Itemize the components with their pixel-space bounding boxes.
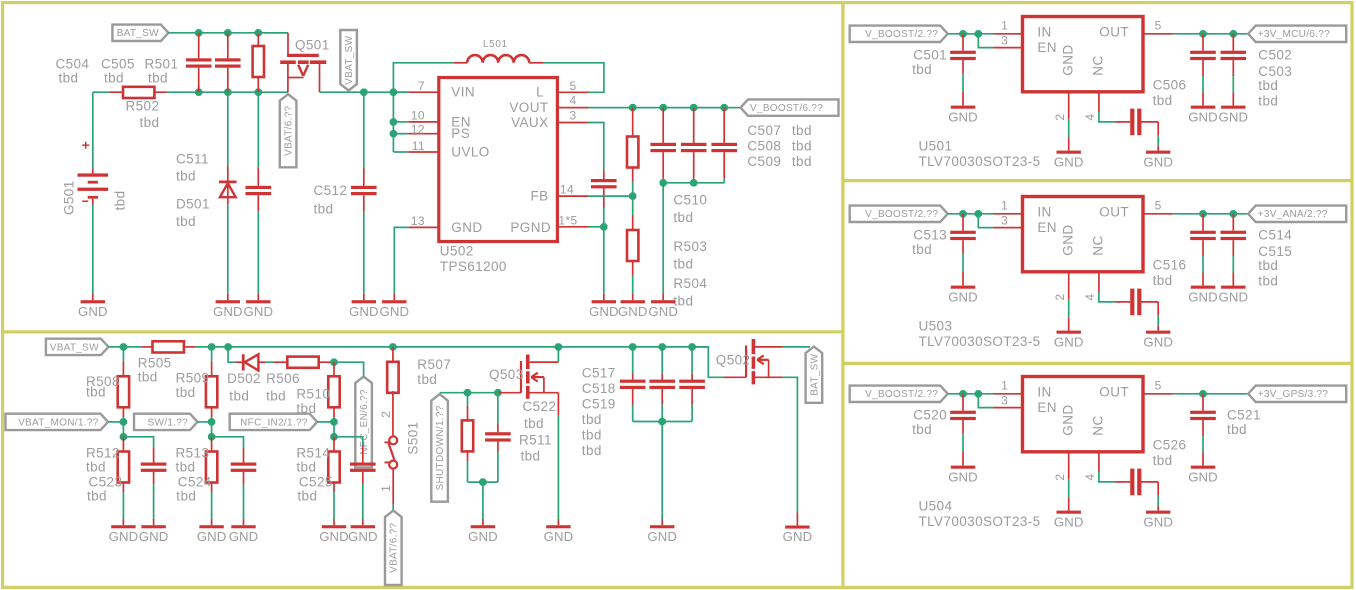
op-amp U501 box bbox=[1023, 17, 1144, 92]
svg-text:V_BOOST/2.??: V_BOOST/2.?? bbox=[865, 29, 938, 40]
svg-text:C514: C514 bbox=[1258, 228, 1292, 243]
wire SHUTDOWN bbox=[440, 392, 499, 394]
net label V_BOOST/2.?? bbox=[850, 386, 948, 402]
junction dot FB bbox=[629, 192, 636, 199]
net label +3V_MCU/6.?? bbox=[1248, 26, 1346, 42]
svg-text:GND: GND bbox=[1143, 154, 1173, 169]
wire VBAT rail bbox=[93, 91, 288, 93]
ground GND C526 bbox=[1143, 511, 1173, 530]
svg-text:tbd: tbd bbox=[176, 489, 196, 504]
pin name VIN bbox=[451, 85, 475, 100]
svg-text:VBAT/6.??: VBAT/6.?? bbox=[284, 105, 295, 155]
pin name EN bbox=[451, 114, 471, 129]
junction dots top rail bbox=[195, 29, 262, 36]
label R508 bbox=[86, 374, 120, 400]
label tbd C518 bbox=[582, 428, 602, 443]
svg-text:tbd: tbd bbox=[1258, 78, 1278, 93]
svg-text:GND: GND bbox=[948, 289, 978, 304]
label Q502 bbox=[716, 353, 751, 368]
wire LDO input bbox=[948, 33, 1023, 35]
svg-text:tbd: tbd bbox=[314, 202, 334, 217]
pin name VOUT bbox=[509, 100, 548, 115]
net label BAT_SW bbox=[112, 25, 168, 41]
ground GND C516 bbox=[1143, 331, 1173, 350]
svg-text:BAT_SW: BAT_SW bbox=[117, 28, 159, 39]
label R509 bbox=[176, 371, 210, 401]
net label VBAT_MON/1.?? bbox=[6, 414, 109, 430]
wire BAT_SW rail bbox=[168, 32, 288, 34]
pin name NC bbox=[1091, 415, 1106, 435]
svg-text:tbd: tbd bbox=[176, 385, 196, 400]
svg-text:U501: U501 bbox=[919, 139, 953, 154]
svg-text:C509: C509 bbox=[747, 154, 781, 169]
label C518 bbox=[582, 381, 616, 396]
svg-text:tbd: tbd bbox=[673, 257, 693, 272]
svg-text:Q503: Q503 bbox=[489, 367, 524, 382]
ground GND C514 bbox=[1188, 286, 1218, 305]
svg-text:GND: GND bbox=[647, 529, 677, 544]
svg-text:R502: R502 bbox=[126, 99, 160, 114]
pin name NC bbox=[1091, 55, 1106, 75]
wire pin2 GND bbox=[1068, 452, 1070, 511]
resistor R507 bbox=[387, 347, 398, 436]
battery G501 bbox=[78, 92, 109, 204]
svg-text:14: 14 bbox=[560, 183, 574, 197]
svg-text:GND: GND bbox=[1054, 154, 1084, 169]
svg-text:5: 5 bbox=[569, 79, 576, 93]
transistor Q501 bbox=[280, 33, 326, 92]
svg-text:GND: GND bbox=[948, 109, 978, 124]
label C520 bbox=[912, 408, 947, 438]
ground GND Q502 bbox=[783, 526, 813, 545]
svg-text:IN: IN bbox=[1037, 25, 1051, 40]
svg-text:BAT_SW: BAT_SW bbox=[809, 353, 820, 395]
svg-text:5: 5 bbox=[1155, 379, 1162, 393]
svg-text:tbd: tbd bbox=[176, 169, 196, 184]
wire join to gnd bbox=[662, 183, 664, 300]
pin number 2 bbox=[1053, 474, 1067, 481]
junction dot output bbox=[1199, 390, 1206, 397]
svg-text:C517: C517 bbox=[582, 366, 616, 381]
ground GND pin2 bbox=[1054, 151, 1084, 170]
wire pin FB bbox=[557, 195, 632, 197]
svg-text:13: 13 bbox=[411, 214, 425, 228]
wire EN link bbox=[978, 34, 1022, 48]
svg-text:C501: C501 bbox=[913, 48, 947, 63]
label C513 bbox=[912, 228, 947, 258]
label tbd C519 bbox=[582, 443, 602, 458]
inductor L501 bbox=[467, 55, 529, 63]
pin number 1 bbox=[1001, 199, 1008, 213]
net label +3V_ANA/2.?? bbox=[1248, 206, 1346, 222]
wire Q502 source to gnd bbox=[783, 377, 798, 525]
svg-text:C510: C510 bbox=[673, 193, 707, 208]
svg-text:GND: GND bbox=[348, 529, 378, 544]
svg-text:tbd: tbd bbox=[1153, 93, 1173, 108]
wire EN link bbox=[978, 214, 1022, 228]
label R501 bbox=[145, 57, 179, 86]
svg-text:C513: C513 bbox=[913, 228, 947, 243]
svg-text:NC: NC bbox=[1091, 415, 1106, 435]
svg-text:NFC_EN/6.??: NFC_EN/6.?? bbox=[359, 389, 370, 455]
pin number 5 bbox=[1155, 379, 1162, 393]
label tbd C502 bbox=[1258, 78, 1278, 93]
svg-text:GND: GND bbox=[1188, 289, 1218, 304]
svg-text:R512: R512 bbox=[86, 446, 120, 461]
wire cap join 2 bbox=[633, 421, 692, 423]
pin name GND bbox=[1061, 404, 1076, 435]
svg-text:3: 3 bbox=[1001, 393, 1008, 407]
capacitor C503 bbox=[1221, 34, 1247, 106]
ground GND C515 bbox=[1218, 286, 1248, 305]
wire EN link bbox=[978, 394, 1022, 408]
resistor R508 bbox=[118, 347, 129, 422]
svg-text:tbd: tbd bbox=[582, 412, 602, 427]
wire UVLO stub bbox=[393, 151, 438, 153]
svg-text:5: 5 bbox=[1155, 199, 1162, 213]
label C509 bbox=[747, 154, 811, 169]
net label NFC_IN2/1.?? bbox=[230, 414, 318, 430]
capacitor C515 bbox=[1221, 214, 1247, 286]
svg-text:tbd: tbd bbox=[229, 389, 249, 404]
junction dots input bbox=[959, 30, 982, 37]
svg-text:3: 3 bbox=[1001, 33, 1008, 47]
svg-text:R505: R505 bbox=[138, 356, 172, 371]
pin number 7 bbox=[418, 79, 425, 93]
svg-text:C502: C502 bbox=[1258, 48, 1292, 63]
junction dot RC join bbox=[479, 478, 486, 485]
svg-text:EN: EN bbox=[1037, 400, 1057, 415]
label C502 bbox=[1258, 48, 1292, 63]
label C512 bbox=[314, 183, 348, 217]
pin name IN bbox=[1037, 205, 1051, 220]
capacitor C521 bbox=[1190, 394, 1216, 466]
pin number 1 S501 bbox=[379, 485, 393, 492]
junction dots cap join bbox=[660, 179, 698, 186]
svg-text:C507: C507 bbox=[747, 123, 781, 138]
svg-text:GND: GND bbox=[229, 529, 259, 544]
capacitor C502 bbox=[1190, 34, 1216, 106]
svg-text:tbd: tbd bbox=[297, 489, 317, 504]
svg-text:1: 1 bbox=[379, 485, 393, 492]
ground GND C503 bbox=[1218, 106, 1248, 125]
wire L501 loop right bbox=[529, 63, 604, 93]
label C508 bbox=[747, 139, 811, 154]
capacitor C504 bbox=[186, 33, 212, 92]
svg-text:1: 1 bbox=[1001, 199, 1008, 213]
pin number 1*5 bbox=[558, 213, 577, 227]
svg-text:GND: GND bbox=[948, 469, 978, 484]
net label VBAT_SW 2 bbox=[46, 339, 109, 355]
svg-text:tbd: tbd bbox=[266, 389, 286, 404]
label U504 bbox=[919, 499, 1041, 529]
ground GND battery bbox=[78, 300, 108, 319]
resistor R506 bbox=[274, 357, 334, 368]
net label SHUTDOWN/1.?? bbox=[431, 394, 448, 502]
capacitor C518 bbox=[649, 347, 675, 422]
svg-text:GND: GND bbox=[139, 529, 169, 544]
switch S501 bbox=[385, 436, 398, 504]
svg-text:tbd: tbd bbox=[176, 214, 196, 229]
svg-text:GND: GND bbox=[1188, 109, 1218, 124]
ground GND pin13 bbox=[379, 300, 409, 319]
wire Q503 drain bbox=[557, 347, 559, 362]
svg-text:GND: GND bbox=[379, 304, 409, 319]
wire LDO input bbox=[948, 393, 1023, 395]
svg-text:G501: G501 bbox=[62, 180, 77, 215]
junction dots EN PS bbox=[390, 118, 397, 137]
svg-text:VBAT_SW: VBAT_SW bbox=[50, 342, 99, 353]
svg-text:C504: C504 bbox=[56, 57, 90, 72]
junction dots VBAT rail bbox=[195, 89, 262, 96]
svg-text:C511: C511 bbox=[176, 152, 209, 167]
svg-text:4: 4 bbox=[1083, 474, 1097, 481]
pin name EN bbox=[1037, 220, 1057, 235]
wire RC to gnd bbox=[482, 482, 484, 525]
pin number 14 bbox=[560, 183, 574, 197]
pin number 2 bbox=[1053, 114, 1067, 121]
ground GND R513 bbox=[197, 525, 227, 544]
capacitor C516 bbox=[1130, 289, 1141, 316]
pin number 3 bbox=[569, 109, 576, 123]
svg-text:R501: R501 bbox=[145, 57, 179, 72]
pin number 1 bbox=[1001, 19, 1008, 33]
svg-text:GND: GND bbox=[1061, 404, 1076, 435]
svg-text:tbd: tbd bbox=[1258, 258, 1278, 273]
svg-text:U503: U503 bbox=[919, 319, 953, 334]
label R503 bbox=[673, 239, 707, 272]
junction dots input bbox=[959, 390, 982, 397]
transistor Q503 bbox=[499, 355, 559, 399]
label Q503 bbox=[489, 367, 524, 382]
wire PGND to gnd bbox=[603, 227, 605, 300]
junction dot R512 tap bbox=[120, 433, 127, 440]
wire C-NC to gnd bbox=[1141, 122, 1158, 151]
svg-text:L501: L501 bbox=[483, 39, 508, 50]
junction dot NFC_IN2 bbox=[330, 418, 337, 425]
wire pin4 VOUT bbox=[557, 107, 740, 109]
pin name GND bbox=[451, 220, 482, 235]
wire S501 to VBAT flag bbox=[392, 505, 394, 511]
wire pin5 stub bbox=[557, 91, 588, 93]
capacitor C524 bbox=[212, 437, 257, 525]
pin number 10 bbox=[411, 109, 425, 123]
svg-text:TLV70030SOT23-5: TLV70030SOT23-5 bbox=[919, 334, 1041, 349]
label R507 bbox=[417, 357, 451, 387]
svg-text:C506: C506 bbox=[1153, 78, 1187, 93]
ground GND R504 bbox=[618, 300, 648, 319]
svg-text:C520: C520 bbox=[913, 408, 947, 423]
svg-text:tbd: tbd bbox=[912, 62, 932, 77]
resistor R502 bbox=[109, 87, 166, 98]
svg-text:R506: R506 bbox=[266, 371, 300, 386]
capacitor C512 bbox=[351, 92, 377, 300]
wire VIN vertical bbox=[392, 92, 394, 152]
wire pin13 GND bbox=[394, 227, 438, 300]
wire D502 to R506 bbox=[265, 361, 274, 363]
wire pin PGND bbox=[557, 226, 603, 228]
junction dot VBAT_MON bbox=[120, 418, 127, 425]
label R502 bbox=[126, 99, 160, 131]
wire pin3 VAUX bbox=[557, 123, 603, 180]
wire join to gnd 2 bbox=[661, 422, 663, 526]
svg-text:GND: GND bbox=[109, 529, 139, 544]
svg-text:4: 4 bbox=[1083, 114, 1097, 121]
capacitor C501 bbox=[950, 34, 976, 106]
svg-text:GND: GND bbox=[1054, 514, 1084, 529]
ground GND R512 bbox=[109, 525, 139, 544]
capacitor C523 bbox=[123, 437, 166, 525]
svg-text:Q501: Q501 bbox=[295, 38, 330, 53]
wire pin4 NC bbox=[1099, 452, 1130, 482]
label C521 bbox=[1227, 408, 1261, 438]
pin name GND bbox=[1061, 44, 1076, 75]
ground GND caps bbox=[648, 300, 678, 319]
junction dots SHUTDOWN bbox=[464, 389, 502, 396]
label G501 bbox=[62, 180, 128, 215]
svg-text:GND: GND bbox=[1061, 224, 1076, 255]
svg-text:GND: GND bbox=[648, 304, 678, 319]
label R512 bbox=[86, 446, 120, 475]
junction dot SW bbox=[208, 418, 215, 425]
wire C525 link bbox=[334, 437, 363, 446]
svg-text:1: 1 bbox=[1001, 19, 1008, 33]
op-amp U502 box bbox=[439, 78, 558, 242]
label S501 bbox=[406, 421, 421, 454]
svg-text:C521: C521 bbox=[1227, 408, 1261, 423]
wire VBAT_MON bbox=[108, 421, 123, 423]
wire LDO output bbox=[1143, 213, 1248, 215]
wire NFC_EN bbox=[334, 362, 364, 376]
svg-text:5: 5 bbox=[1155, 19, 1162, 33]
resistor R513 bbox=[206, 437, 217, 525]
wire SW bbox=[198, 421, 212, 423]
svg-text:tbd: tbd bbox=[792, 154, 812, 169]
wire RC join bbox=[468, 481, 498, 483]
svg-text:EN: EN bbox=[1037, 220, 1057, 235]
svg-text:C524: C524 bbox=[178, 475, 212, 490]
label tbd C517 bbox=[582, 412, 602, 427]
svg-text:tbd: tbd bbox=[792, 123, 812, 138]
wire pin2 GND bbox=[1068, 272, 1070, 331]
wire C-NC to gnd bbox=[1141, 302, 1158, 331]
capacitor C506 bbox=[1130, 109, 1141, 136]
ground GND PGND bbox=[589, 300, 619, 319]
svg-text:NC: NC bbox=[1091, 55, 1106, 75]
pin name NC bbox=[1091, 235, 1106, 255]
wire L501 loop left bbox=[393, 63, 467, 92]
svg-text:VBAT_MON/1.??: VBAT_MON/1.?? bbox=[18, 417, 99, 428]
net label VBAT/6.?? 2 bbox=[385, 511, 402, 586]
svg-text:tbd: tbd bbox=[912, 422, 932, 437]
pin name IN bbox=[1037, 385, 1051, 400]
net label V_BOOST/6.?? bbox=[741, 99, 839, 115]
svg-text:tbd: tbd bbox=[524, 416, 544, 431]
transistor Q502 bbox=[723, 339, 782, 384]
junction dots output bbox=[1199, 210, 1237, 217]
pin number 1 bbox=[1001, 379, 1008, 393]
pin name GND bbox=[1061, 224, 1076, 255]
label C522 bbox=[523, 399, 557, 431]
ground GND R514 bbox=[319, 525, 349, 544]
junction dot NFC_EN bbox=[330, 359, 337, 366]
wire D502 branch bbox=[228, 347, 235, 362]
pin number 5 bbox=[1155, 19, 1162, 33]
svg-text:C526: C526 bbox=[1153, 438, 1187, 453]
label R513 bbox=[176, 446, 210, 475]
capacitor C525 bbox=[350, 446, 376, 525]
resistor R505 bbox=[153, 341, 184, 352]
svg-text:tbd: tbd bbox=[86, 460, 106, 475]
wire LDO output bbox=[1143, 33, 1248, 35]
wire rail mid bbox=[184, 346, 708, 348]
pin number 11 bbox=[412, 139, 425, 153]
label C524 bbox=[176, 475, 211, 504]
ground GND C525 bbox=[348, 525, 378, 544]
label C505 bbox=[101, 57, 135, 86]
svg-text:VIN: VIN bbox=[451, 85, 475, 100]
net label V_BOOST/2.?? bbox=[850, 26, 948, 42]
svg-text:GND: GND bbox=[1061, 44, 1076, 75]
svg-text:C515: C515 bbox=[1258, 244, 1292, 259]
label R511 bbox=[519, 433, 552, 464]
frame divider left horizontal bbox=[1, 330, 843, 333]
svg-text:tbd: tbd bbox=[148, 71, 168, 86]
ground GND C521 bbox=[1188, 466, 1218, 485]
svg-text:tbd: tbd bbox=[104, 71, 124, 86]
capacitor C511 bbox=[246, 92, 272, 300]
capacitor C505 bbox=[215, 33, 241, 92]
svg-text:C512: C512 bbox=[314, 183, 348, 198]
svg-text:R513: R513 bbox=[176, 446, 210, 461]
pin name OUT bbox=[1099, 25, 1129, 40]
svg-text:tbd: tbd bbox=[1258, 93, 1278, 108]
svg-text:C505: C505 bbox=[101, 57, 135, 72]
svg-text:tbd: tbd bbox=[140, 115, 160, 130]
capacitor C513 bbox=[950, 214, 976, 286]
op-amp U503 box bbox=[1023, 197, 1144, 272]
junction dots output bbox=[1199, 30, 1237, 37]
svg-text:UVLO: UVLO bbox=[451, 144, 489, 159]
svg-text:R503: R503 bbox=[673, 239, 707, 254]
svg-text:tbd: tbd bbox=[912, 242, 932, 257]
svg-text:2: 2 bbox=[1053, 474, 1067, 481]
capacitor C514 bbox=[1190, 214, 1216, 286]
svg-text:C522: C522 bbox=[523, 399, 557, 414]
label C510 bbox=[673, 193, 707, 226]
capacitor C526 bbox=[1130, 469, 1141, 496]
svg-text:GND: GND bbox=[197, 529, 227, 544]
label D502 bbox=[227, 371, 261, 404]
junction dot C512 tap bbox=[360, 89, 367, 96]
svg-text:tbd: tbd bbox=[521, 449, 541, 464]
svg-text:3: 3 bbox=[569, 109, 576, 123]
pin name VAUX bbox=[511, 115, 548, 130]
svg-text:tbd: tbd bbox=[138, 370, 158, 385]
svg-text:+3V_ANA/2.??: +3V_ANA/2.?? bbox=[1258, 209, 1328, 220]
label tbd C514 bbox=[1258, 258, 1278, 273]
wire R509 to R513 bbox=[211, 422, 213, 437]
svg-text:tbd: tbd bbox=[86, 384, 106, 399]
svg-text:tbd: tbd bbox=[582, 428, 602, 443]
capacitor C509 bbox=[711, 108, 737, 183]
svg-text:IN: IN bbox=[1037, 385, 1051, 400]
ground GND C520 bbox=[948, 466, 978, 485]
svg-text:2: 2 bbox=[1053, 294, 1067, 301]
label C507 bbox=[747, 123, 811, 138]
label R504 bbox=[673, 276, 707, 309]
pin number 2 bbox=[1053, 294, 1067, 301]
